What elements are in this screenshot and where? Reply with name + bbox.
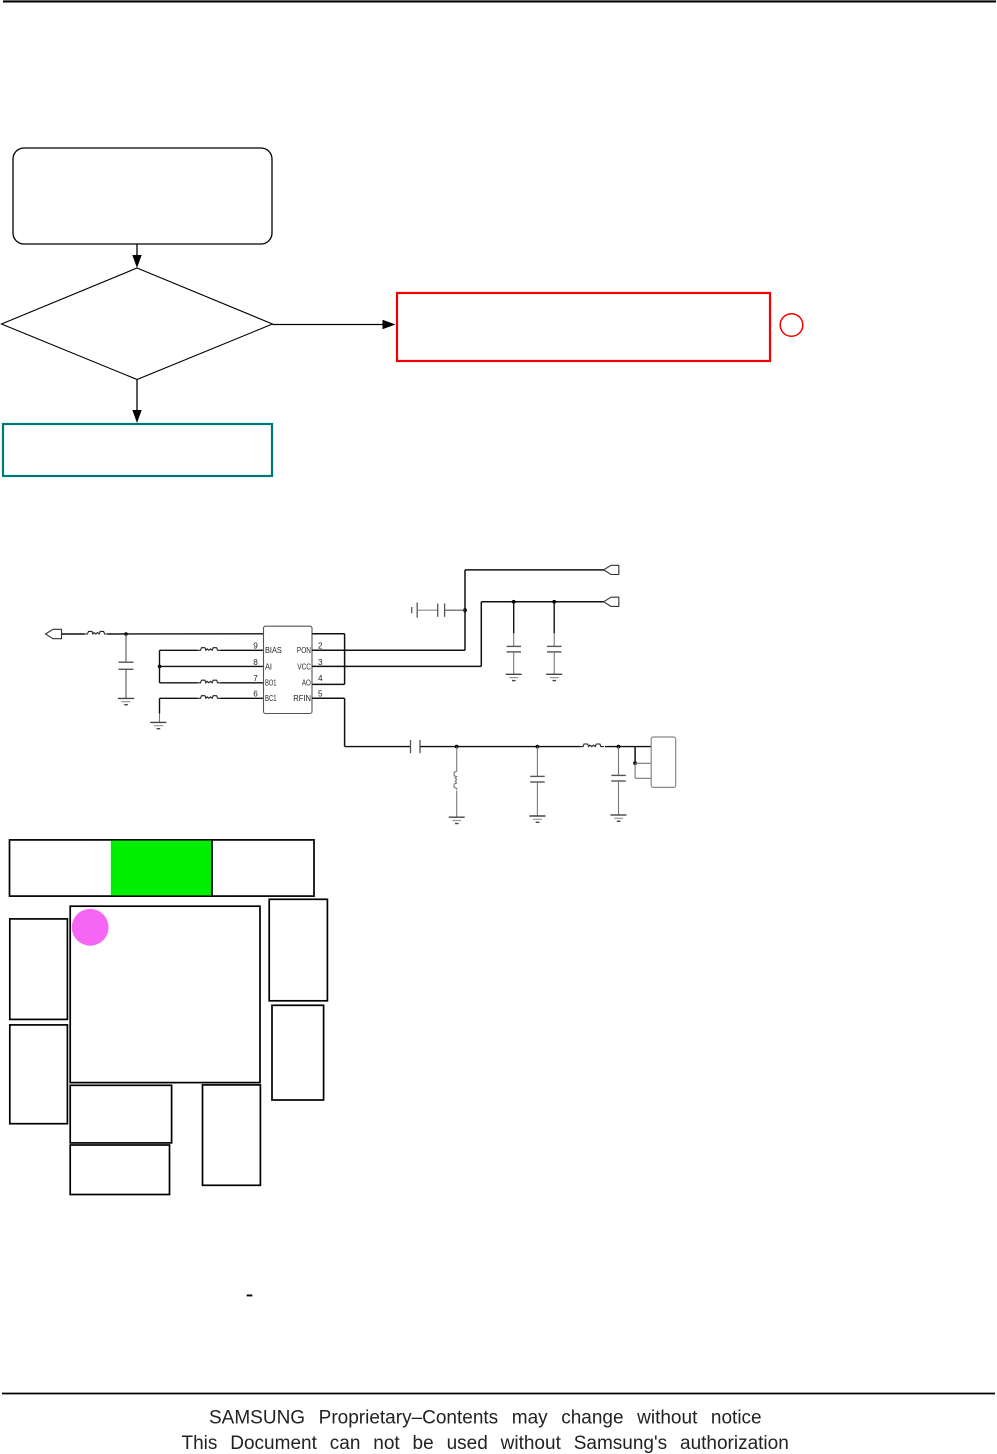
junction C8 tap: [617, 745, 621, 749]
port P2: [604, 565, 619, 574]
coupling capacitor C6: [410, 740, 412, 753]
arrowhead into ok box: [132, 410, 141, 423]
capacitor C8: [611, 774, 626, 776]
arrowhead into decision: [132, 255, 141, 268]
svg-text:SAMSUNG Proprietary–Contents m: SAMSUNG Proprietary–Contents may change …: [209, 1407, 762, 1428]
magenta probe dot: [72, 909, 109, 946]
junction node at C1 tap: [124, 632, 128, 636]
svg-text:RFIN: RFIN: [293, 694, 311, 703]
capacitor C4: [507, 645, 522, 647]
inductor L2: [198, 648, 221, 651]
pcb left box 2: [10, 1025, 68, 1124]
wire pin7 row left: [160, 682, 198, 684]
capacitor C1 top lead: [125, 634, 127, 662]
svg-text:5: 5: [318, 690, 323, 699]
wire RFIN to C6: [345, 746, 410, 748]
inductor L5: [580, 744, 604, 747]
junction J1 pad2: [633, 761, 637, 765]
wire pin9 row left: [160, 649, 198, 651]
capacitor C7: [530, 775, 545, 777]
wire C6 to L5: [420, 746, 580, 748]
wire to J1 pad3: [635, 777, 651, 779]
wire decision to fail box: [273, 324, 385, 326]
capacitor C8 bottom lead: [618, 781, 620, 815]
pcb left box 1: [10, 919, 68, 1020]
pcb right box 2: [272, 1005, 324, 1100]
PON riser wire: [464, 570, 466, 650]
junction C7 tap: [536, 745, 540, 749]
capacitor C5 top lead: [553, 602, 555, 634]
wire P1 to inductor L1: [62, 633, 85, 635]
pcb bottom box 2: [70, 1145, 169, 1195]
inductor L3: [198, 680, 221, 683]
pcb main box: [70, 906, 260, 1082]
ok action box teal: [3, 424, 272, 476]
VCC riser wire: [480, 602, 482, 667]
svg-text:4: 4: [318, 674, 323, 683]
junction PON decoupling tap: [463, 608, 467, 612]
shunt inductor L6 lead: [456, 747, 458, 770]
port P1 RF input: [46, 629, 62, 638]
fail indicator circle: [780, 314, 803, 337]
wire decision to ok box: [136, 380, 138, 412]
capacitor C8 top lead: [618, 747, 620, 775]
wire terminator to decision: [136, 244, 138, 257]
wire L3 to pin7: [221, 682, 264, 684]
page number dash: [247, 1295, 253, 1297]
ground G5: [449, 816, 465, 818]
wire pin4 AO row: [312, 683, 345, 685]
amplifier IC U1: [264, 626, 313, 713]
junction C5 tap: [552, 600, 556, 604]
capacitor C1: [119, 661, 134, 663]
RF connector J1: [651, 737, 676, 787]
RFIN drop wire: [344, 698, 346, 746]
capacitor C1 bottom lead: [125, 669, 127, 698]
wire C3 to PON riser: [445, 609, 465, 611]
decision diamond: [2, 268, 273, 380]
J1 pad drop wire: [634, 747, 636, 764]
bias link vertical wire: [159, 650, 161, 683]
svg-text:This Document can not be used: This Document can not be used without Sa…: [182, 1433, 789, 1454]
wire riser to port P2: [465, 569, 604, 571]
ground G7: [611, 814, 627, 816]
wire pin3 VCC row: [312, 665, 481, 667]
capacitor C5 bottom lead: [553, 652, 555, 674]
capacitor C5: [547, 645, 562, 647]
pcb right box 1: [269, 899, 327, 1001]
svg-text:PON: PON: [297, 646, 311, 655]
capacitor C2 left stub plate: [411, 607, 413, 613]
pin6 ground drop wire: [159, 698, 161, 713]
ground G3: [506, 673, 522, 675]
svg-text:BO1: BO1: [265, 679, 277, 688]
wire VCC riser to port P3: [481, 601, 604, 603]
wire L5 to connector J1: [605, 746, 651, 748]
top header rule: [3, 0, 996, 2]
junction C4 tap: [512, 600, 516, 604]
wire L4 to pin6: [221, 697, 264, 699]
capacitor C3: [437, 604, 439, 617]
AO link vertical wire: [344, 634, 346, 685]
svg-text:BC1: BC1: [265, 694, 277, 703]
divider line right of green: [211, 840, 213, 896]
fail action box red: [397, 293, 770, 361]
inductor L1: [85, 631, 108, 634]
wire pin8 row: [160, 665, 264, 667]
wire IC top-right pin: [312, 633, 345, 635]
wire C2 to C3: [417, 609, 437, 611]
wire L1 to IC top-left pin: [108, 633, 264, 635]
wire L2 to pin9: [221, 649, 264, 651]
capacitor C7 bottom lead: [536, 782, 538, 816]
pcb top bar: [10, 840, 315, 896]
capacitor C4 top lead: [513, 602, 515, 634]
svg-text:8: 8: [253, 658, 258, 667]
capacitor C2 right plate: [416, 603, 418, 618]
ground G4: [546, 673, 562, 675]
ground G6: [529, 815, 545, 817]
green highlight block: [111, 841, 212, 896]
wire pin5 RFIN row: [312, 697, 345, 699]
svg-text:7: 7: [253, 674, 258, 683]
svg-text:BIAS: BIAS: [265, 646, 282, 655]
svg-text:3: 3: [318, 658, 323, 667]
port P3: [604, 597, 619, 606]
svg-text:9: 9: [253, 642, 258, 651]
L6 ground lead: [456, 791, 458, 818]
svg-text:AO: AO: [302, 679, 311, 688]
footer rule: [2, 1393, 995, 1395]
wire pin6 row left: [160, 697, 198, 699]
pcb bottom box 1: [70, 1085, 171, 1143]
arrowhead into fail box: [383, 320, 396, 329]
flowchart terminator box: [13, 148, 272, 244]
svg-text:VCC: VCC: [297, 662, 311, 671]
capacitor C7 top lead: [536, 747, 538, 776]
wire to J1 pad2: [635, 762, 651, 764]
svg-text:6: 6: [253, 690, 258, 699]
capacitor C4 bottom lead: [513, 652, 515, 674]
wire down to J1 pad3: [634, 763, 636, 778]
wire pin2 PON row: [312, 649, 465, 651]
svg-text:2: 2: [318, 642, 323, 651]
svg-text:AI: AI: [265, 662, 272, 671]
junction shunt inductor tap: [455, 745, 459, 749]
inductor L4: [198, 696, 221, 699]
ground G1: [118, 697, 134, 699]
pcb bottom middle box: [203, 1085, 261, 1185]
junction on pin8 wire: [158, 665, 162, 669]
ground G2: [150, 721, 166, 723]
shunt inductor L6: [454, 770, 457, 790]
